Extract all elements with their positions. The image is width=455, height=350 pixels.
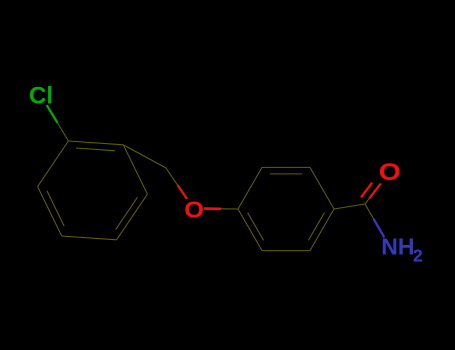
svg-text:O: O (379, 158, 401, 185)
svg-text:O: O (184, 197, 204, 223)
svg-text:Cl: Cl (29, 82, 53, 109)
